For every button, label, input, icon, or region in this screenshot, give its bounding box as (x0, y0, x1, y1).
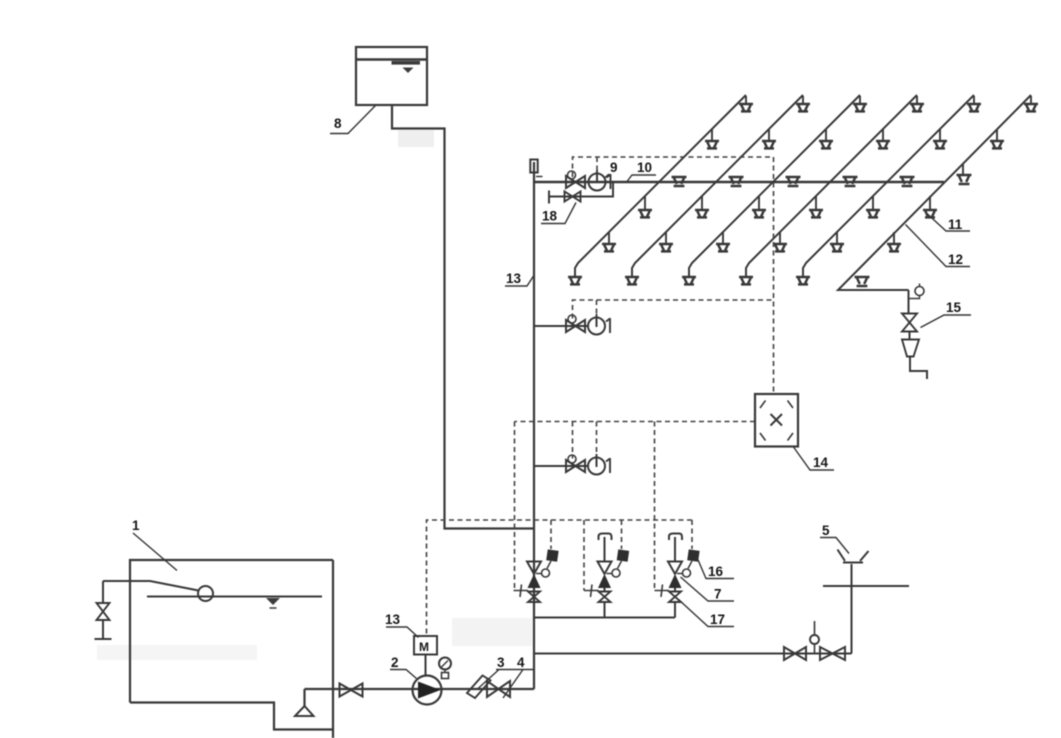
label 18 (541, 203, 576, 224)
label 13 motor (385, 612, 419, 638)
wire drop pressure switch 2 (621, 520, 623, 549)
svg-text:11: 11 (948, 217, 963, 232)
sprinkler head top, branch 4 (910, 96, 924, 111)
sprinkler head on main, branch 1 (672, 177, 687, 186)
branch pipe 12 (diag 1) (575, 95, 746, 277)
sprinkler head top, branch 2 (796, 96, 810, 111)
sprinkler head row5, branch 2 (659, 232, 673, 251)
sprinkler riser pipe (533, 162, 535, 689)
label 7 alarm valve (681, 577, 735, 602)
elevated water tank 8 (356, 47, 427, 105)
svg-text:2: 2 (391, 655, 399, 670)
sprinkler head row3, branch 6 (957, 164, 972, 184)
branch pipe 12 (diag 3) (689, 95, 860, 277)
label 13 riser (505, 271, 534, 286)
wire drop pressure switch 1 (550, 520, 552, 549)
svg-text:3: 3 (497, 655, 505, 670)
svg-text:9: 9 (610, 160, 618, 175)
wet alarm valve assembly 1 (on riser) (514, 549, 559, 617)
svg-text:13: 13 (506, 271, 522, 286)
sprinkler head row5, branch 6 (887, 232, 901, 251)
sprinkler head top, branch 5 (967, 96, 981, 111)
svg-text:16: 16 (708, 564, 724, 579)
sprinkler head row5, branch 5 (830, 232, 844, 251)
pipe to pump adapter (534, 653, 852, 655)
alarm control panel 14 (755, 394, 798, 447)
sprinkler head row5, branch 3 (716, 232, 730, 251)
label 5 (820, 523, 849, 554)
branch pipe floor2 (534, 325, 589, 327)
drain funnel (902, 340, 919, 357)
sprinkler head row2, branch 4 (876, 129, 890, 148)
sprinkler head on main, branch 4 (843, 177, 858, 186)
label 1 (132, 518, 177, 571)
float ball (198, 586, 213, 601)
sprinkler head bottom, branch 3 (682, 277, 696, 284)
svg-text:14: 14 (813, 455, 829, 470)
flow indicator floor3 (588, 454, 610, 475)
svg-text:17: 17 (710, 612, 725, 627)
sprinkler head row4, branch 6 (923, 196, 937, 217)
svg-text:10: 10 (637, 160, 652, 175)
label 2 (390, 655, 417, 679)
suction pipe (305, 689, 535, 706)
svg-text:1: 1 (132, 518, 140, 533)
ground line (823, 585, 909, 587)
svg-text:15: 15 (946, 300, 962, 315)
branch pipe 12 (diag 2) (632, 95, 803, 277)
fire pump 2 (413, 676, 442, 705)
end test drain pipe (909, 290, 928, 379)
svg-text:4: 4 (517, 655, 525, 670)
water level line (147, 596, 322, 598)
label 17 signal valve (679, 600, 735, 628)
pressure gauge at pump (439, 658, 451, 679)
sprinkler head top, branch 3 (853, 96, 867, 111)
branch pipe 12 (diag 4) (746, 95, 917, 277)
water level symbol (266, 598, 280, 608)
branch pipe 12 (diag 5) (803, 95, 974, 277)
sprinkler head bottom, branch 4 (739, 277, 753, 284)
pressure gauge at test point (910, 284, 925, 299)
svg-text:12: 12 (948, 252, 963, 267)
sprinkler head row4, branch 4 (809, 196, 823, 217)
pump adapter symbol 5 (838, 550, 869, 563)
svg-text:13: 13 (385, 612, 401, 627)
signal wire flow indicator floor2 (596, 300, 598, 314)
gate valve 4 (487, 681, 510, 697)
branch pipe 12 (diag 6) (838, 95, 1031, 290)
wire drop assembly2 drain (583, 520, 585, 591)
signal wire floor1 to panel (573, 157, 774, 394)
motor 13 (414, 636, 437, 676)
sprinkler head on main, branch 3 (786, 177, 801, 186)
svg-text:8: 8 (334, 116, 342, 131)
label 12 branch pipe (906, 225, 971, 268)
wet alarm valve assembly 2 (584, 534, 629, 618)
label 11 sprinkler (928, 214, 971, 232)
air vent at riser top (530, 160, 542, 177)
branch pipe floor3 (534, 465, 589, 467)
svg-text:18: 18 (542, 209, 558, 224)
test valve 18 (565, 192, 581, 202)
relief gauge at adapter (810, 621, 819, 654)
labels 3 4 (478, 655, 534, 698)
signal wire left riser drop (514, 422, 516, 591)
svg-text:7: 7 (714, 587, 722, 602)
float valve inlet (103, 581, 199, 591)
label 14 (794, 447, 835, 470)
inlet drain valve (95, 581, 112, 639)
sprinkler head bottom, branch 1 (568, 277, 582, 284)
sprinkler head row5, branch 4 (773, 232, 787, 251)
sprinkler head row4, branch 2 (695, 196, 709, 217)
sprinkler head row2, branch 3 (819, 129, 833, 148)
sprinkler head top, branch 1 (739, 96, 753, 111)
sprinkler head top, branch 6 (1024, 96, 1038, 111)
flow indicator 9 floor1 (589, 170, 611, 191)
wet alarm valve assembly 3 (655, 534, 700, 618)
foot valve (295, 706, 314, 716)
sprinkler head bottom, branch 5 (796, 277, 810, 284)
flow indicator floor2 (588, 314, 610, 335)
adapter riser (851, 564, 853, 654)
sprinkler head on main, branch 5 (900, 177, 915, 186)
svg-text:M: M (419, 640, 429, 654)
label 10 main (627, 160, 656, 182)
signal wire floor3 bus (515, 421, 756, 423)
sprinkler head row4, branch 5 (866, 196, 880, 217)
label 9 (605, 160, 618, 178)
label 15 (921, 300, 972, 328)
wire drop pressure switch 3 (691, 520, 693, 549)
sprinkler head row2, branch 1 (705, 129, 719, 148)
control wire bus to pump (427, 520, 693, 636)
sprinkler head bottom, branch 2 (625, 277, 639, 284)
sprinkler head on main, branch 2 (729, 177, 744, 186)
suction gate valve (340, 684, 363, 697)
sprinkler head row4, branch 1 (638, 196, 652, 217)
signal valve floor1 (566, 171, 585, 188)
signal wire floor2 (573, 300, 774, 319)
supply header (534, 617, 675, 619)
check valve 3 (467, 676, 491, 699)
sprinkler head row2, branch 6 (990, 129, 1004, 148)
distribution main 10 (534, 181, 944, 183)
fire reservoir tank 1 (130, 560, 333, 738)
label 16 pressure switch (697, 558, 734, 580)
signal wire flow indicator floor3 (596, 422, 598, 455)
test valve (902, 314, 917, 332)
signal wire floor3 valve (572, 422, 574, 459)
label 8 (330, 106, 376, 134)
scan smudge (97, 130, 532, 660)
sprinkler head row2, branch 5 (933, 129, 947, 148)
check valve at adapter (820, 647, 845, 660)
test drain line floor1 (549, 182, 613, 204)
sprinkler head bottom, branch 6 (855, 277, 870, 286)
sprinkler head row5, branch 1 (602, 232, 616, 251)
sprinkler head row2, branch 2 (762, 129, 776, 148)
sprinkler head row4, branch 3 (752, 196, 766, 217)
tank 8 outlet pipe (392, 105, 533, 529)
gate valve at adapter (784, 647, 806, 660)
signal wire mid drop (654, 422, 656, 591)
signal wire flow indicator floor1 (596, 157, 598, 170)
svg-text:5: 5 (822, 523, 830, 538)
signal valve floor2 (566, 315, 585, 332)
signal valve floor3 (566, 455, 585, 472)
